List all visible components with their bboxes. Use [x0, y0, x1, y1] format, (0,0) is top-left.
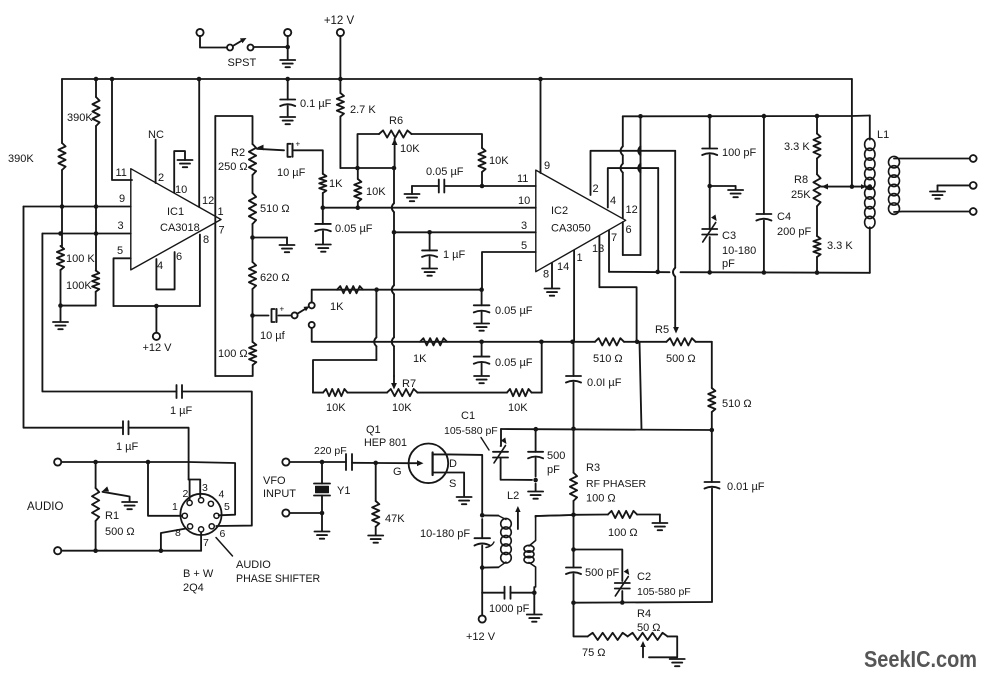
ground SPST — [280, 60, 295, 67]
wire L1 sec bottom — [894, 211, 970, 214]
svg-text:1: 1 — [218, 206, 224, 218]
wire 1uF-1 line — [42, 234, 176, 392]
svg-text:6: 6 — [626, 224, 632, 236]
wire VFO bottom lead — [290, 512, 323, 514]
wire R6 right leg — [412, 134, 483, 148]
svg-text:C2: C2 — [637, 571, 651, 583]
svg-text:D: D — [449, 458, 457, 470]
svg-text:CA3018: CA3018 — [160, 222, 200, 234]
svg-text:10-180: 10-180 — [722, 245, 756, 257]
label 500pF lower — [585, 567, 620, 579]
wire 10uF-switch lead — [279, 315, 292, 317]
label G — [393, 466, 402, 478]
svg-text:pF: pF — [722, 258, 735, 270]
label 10uF lower — [260, 330, 286, 342]
svg-text:500 Ω: 500 Ω — [666, 353, 696, 365]
wire pin4 drop — [657, 168, 659, 272]
potentiometer R8 25K — [813, 174, 820, 206]
label socket pins — [172, 482, 230, 549]
ground 0.05uF c — [474, 376, 489, 383]
svg-text:R7: R7 — [402, 378, 416, 390]
svg-text:7: 7 — [219, 225, 225, 237]
wire 1uF-2 right — [129, 428, 189, 480]
wiper R2 arrow — [257, 145, 284, 151]
label 10K br — [508, 402, 528, 414]
terminal SPST right — [284, 29, 291, 36]
svg-text:4: 4 — [610, 195, 616, 207]
wire col-right mid — [95, 207, 97, 271]
pin 1-7 column — [215, 116, 224, 376]
svg-text:75 Ω: 75 Ω — [582, 647, 606, 659]
label 75 — [582, 647, 606, 659]
resistor 510 chain — [249, 193, 256, 238]
resistor 3.3K upper — [813, 116, 820, 174]
resistor 510 bus — [595, 338, 624, 345]
label 0.05uF c — [495, 357, 533, 369]
wire +12V drop to wiper — [851, 79, 853, 187]
capacitor 1uF first — [177, 385, 183, 398]
label 100K lower — [66, 280, 92, 292]
wire tank to 1000pF — [481, 568, 483, 593]
svg-text:L1: L1 — [877, 129, 889, 141]
wire +12V feed — [339, 36, 341, 79]
svg-text:C3: C3 — [722, 230, 736, 242]
label C4 — [777, 211, 812, 238]
capacitor 1000pF — [482, 587, 534, 599]
svg-text:0.05 µF: 0.05 µF — [426, 166, 464, 178]
capacitor 500pF top — [528, 429, 543, 490]
callout C1 leader — [481, 438, 489, 451]
svg-text:R2: R2 — [231, 147, 245, 159]
node SPST-ground junction — [285, 45, 290, 50]
resistor 100K lower — [92, 271, 99, 306]
label 0.05uF b — [495, 305, 533, 317]
wire 220pF to gate — [352, 462, 409, 464]
wire 2.7K elbow — [340, 167, 394, 169]
label 100pF — [722, 147, 757, 159]
ground left column — [53, 322, 68, 329]
capacitor 100pF — [702, 116, 717, 186]
svg-text:500 pF: 500 pF — [585, 567, 620, 579]
svg-text:510 Ω: 510 Ω — [260, 203, 290, 215]
svg-text:12: 12 — [202, 195, 214, 207]
ground R4 — [670, 659, 685, 666]
capacitor 1uF mid — [422, 232, 437, 267]
svg-text:L2: L2 — [507, 490, 519, 502]
potentiometer R2 250 — [249, 144, 256, 193]
label 510 vert — [722, 398, 752, 410]
capacitor 0.01uF left — [566, 342, 581, 429]
svg-text:7: 7 — [203, 537, 209, 549]
inductor L1 secondary — [889, 156, 900, 214]
wire 100K bottoms — [61, 306, 96, 321]
op-amp IC2 CA3050 — [536, 170, 626, 272]
svg-text:3: 3 — [118, 220, 124, 232]
node pin3 junctions — [58, 231, 98, 236]
label 10K bl — [326, 402, 346, 414]
wire L2 coupling top — [498, 516, 506, 568]
label R3 — [586, 462, 647, 505]
pin 4 feedback loop — [608, 168, 658, 207]
pin 8 lead — [200, 234, 209, 306]
label pin 11 IC2 — [517, 173, 528, 185]
potentiometer R4 50 — [628, 633, 678, 658]
ground 0.05uF b — [474, 324, 489, 331]
terminal +12V bottom — [479, 615, 486, 622]
svg-text:3: 3 — [202, 482, 208, 494]
node 620 bottom — [250, 313, 255, 318]
resistor 47K — [372, 463, 379, 535]
ground 1000pF — [527, 615, 542, 622]
resistor 3.3K lower — [813, 206, 820, 272]
node pin4-pin7 junction — [655, 270, 660, 275]
label NC — [148, 129, 164, 141]
wiper R8 — [822, 184, 870, 190]
label R4 — [637, 608, 661, 634]
wire L2 sec to R3 — [536, 515, 574, 517]
svg-text:INPUT: INPUT — [263, 488, 296, 500]
socket pin circles — [182, 498, 219, 532]
svg-text:AUDIO: AUDIO — [27, 501, 63, 513]
wire pin7 line — [609, 272, 870, 273]
wire 1000pF right gnd — [533, 587, 535, 614]
svg-text:+12 V: +12 V — [324, 15, 355, 27]
svg-text:1 µF: 1 µF — [443, 249, 466, 261]
label AUDIO — [27, 501, 63, 513]
op-amp IC1 CA3018 — [131, 169, 221, 270]
terminal VFO bottom — [282, 509, 289, 516]
svg-text:105-580 pF: 105-580 pF — [637, 586, 691, 598]
resistor 390K right — [92, 79, 99, 207]
label 0.05uF a — [335, 223, 373, 235]
wiper R4 — [640, 641, 645, 657]
svg-text:R1: R1 — [105, 510, 119, 522]
wire audio bottom line — [61, 550, 201, 552]
node C1-500pF junction — [533, 478, 538, 483]
wire L1 sec top — [894, 158, 970, 160]
label 390K left — [8, 153, 34, 165]
svg-text:0.0I µF: 0.0I µF — [587, 377, 622, 389]
label pin 5 IC2 — [521, 240, 527, 252]
wire y116 line — [623, 115, 870, 118]
inductor L1 primary — [865, 116, 875, 273]
wire +12V bottom lead — [481, 593, 483, 616]
svg-text:620 Ω: 620 Ω — [260, 272, 290, 284]
wire 1uF-2 line — [24, 207, 124, 428]
wire SPST right lead — [254, 36, 288, 59]
node y603 junctions — [571, 600, 624, 605]
svg-text:1: 1 — [172, 501, 178, 513]
wire 10uF to 1K — [294, 150, 323, 174]
label pin 10 IC2 — [518, 195, 530, 207]
svg-text:100K: 100K — [66, 280, 92, 292]
svg-text:G: G — [393, 466, 402, 478]
svg-text:+12 V: +12 V — [466, 631, 496, 643]
label 220pF — [314, 445, 347, 457]
svg-text:R8: R8 — [794, 174, 808, 186]
capacitor 0.05uF a — [315, 208, 331, 244]
resistor 1K-2 — [420, 338, 447, 345]
label 1000pF — [489, 603, 530, 615]
svg-text:HEP 801: HEP 801 — [364, 437, 407, 449]
wire C2 jog — [574, 550, 623, 582]
svg-text:2: 2 — [158, 172, 164, 184]
node pin9 junctions — [60, 204, 99, 209]
wire col-left mid — [61, 207, 63, 247]
svg-text:10K: 10K — [366, 186, 386, 198]
svg-text:200 pF: 200 pF — [777, 226, 812, 238]
terminal +12V top — [337, 29, 344, 36]
svg-text:0.1 µF: 0.1 µF — [300, 98, 332, 110]
wire R6 left leg — [358, 134, 380, 168]
svg-text:10-180 pF: 10-180 pF — [420, 528, 470, 540]
label 1uF first — [170, 405, 193, 417]
label 0.01uF right — [727, 481, 765, 493]
svg-text:220 pF: 220 pF — [314, 445, 347, 457]
ground 500pF top — [528, 492, 543, 499]
capacitor 0.05uF pin11 — [412, 180, 536, 193]
label 0.01uF left — [587, 377, 622, 389]
svg-text:+: + — [280, 305, 285, 314]
node R8 wiper junctions — [850, 184, 872, 189]
node tank top — [480, 513, 485, 518]
pin 6 riser U — [623, 116, 641, 255]
resistor 100 gnd — [608, 511, 660, 522]
svg-text:1 µF: 1 µF — [116, 441, 139, 453]
label 510 chain — [260, 203, 290, 215]
pin 1 riser — [574, 251, 583, 342]
node 1K line junctions — [374, 287, 484, 292]
svg-text:1K: 1K — [413, 353, 427, 365]
capacitor 1uF second — [123, 421, 129, 434]
svg-text:C1: C1 — [461, 410, 475, 422]
svg-text:3: 3 — [521, 220, 527, 232]
svg-text:2Q4: 2Q4 — [183, 582, 204, 594]
node pin3 junctions — [392, 230, 432, 235]
node R3 bottom — [571, 513, 576, 518]
resistor 10K mid — [354, 168, 361, 208]
wire pin3 jog — [189, 480, 201, 497]
node y430 junctions — [534, 427, 576, 432]
capacitor 10uF upper — [288, 139, 301, 157]
resistor 2.7K — [337, 79, 344, 168]
ground Y1 — [315, 532, 330, 539]
label 10-180pF tank — [420, 528, 470, 540]
wire SPST left lead — [200, 36, 227, 47]
svg-text:11: 11 — [116, 167, 127, 179]
svg-text:390K: 390K — [8, 153, 34, 165]
svg-text:10K: 10K — [489, 155, 509, 167]
wire to 75ohm — [574, 603, 588, 637]
svg-text:5: 5 — [224, 501, 230, 513]
svg-text:2.7 K: 2.7 K — [350, 104, 376, 116]
ground Q1 source — [457, 497, 472, 504]
label 47K — [385, 513, 405, 525]
wire pin10 line — [323, 207, 536, 209]
svg-text:S: S — [449, 478, 456, 490]
label 10uF upper — [277, 167, 306, 179]
node 510vert bottom — [710, 428, 715, 433]
svg-text:8: 8 — [203, 234, 209, 246]
switch tone pole — [292, 306, 310, 318]
wire left rail corner — [61, 79, 63, 143]
svg-text:500 Ω: 500 Ω — [105, 526, 135, 538]
label C1 — [444, 410, 498, 437]
svg-text:14: 14 — [557, 261, 569, 273]
wire y430 line — [501, 429, 712, 430]
label L1 — [877, 129, 889, 141]
resistor 10K right — [478, 148, 485, 186]
svg-text:10K: 10K — [400, 143, 420, 155]
resistor 1K col — [319, 174, 326, 208]
wire R2 box top — [215, 116, 252, 144]
capacitor 500pF lower — [566, 550, 581, 603]
node 2.7K-R6 junctions — [355, 166, 396, 171]
svg-text:R4: R4 — [637, 608, 651, 620]
ground 0.1uF — [280, 117, 295, 124]
svg-text:VFO: VFO — [263, 475, 286, 487]
svg-text:6: 6 — [220, 528, 226, 540]
inductor L2 secondary — [524, 517, 536, 587]
potentiometer R5 500 — [666, 338, 695, 345]
capacitor C1 105-580pF — [493, 429, 532, 480]
svg-text:pF: pF — [547, 464, 560, 476]
svg-text:100 K: 100 K — [66, 253, 95, 265]
label Y1 — [337, 485, 350, 497]
label 1uF mid — [443, 249, 466, 261]
potentiometer R1 500 — [92, 462, 99, 551]
pin 10 lead and ground — [174, 151, 192, 196]
svg-text:RF PHASER: RF PHASER — [586, 478, 647, 490]
pin 12 lead — [199, 79, 214, 207]
wire 1K-2 line — [372, 341, 482, 343]
resistor R3 100 — [570, 429, 577, 515]
label Q1 — [364, 424, 407, 449]
label 390K right — [67, 112, 93, 124]
wiper R6 — [392, 139, 398, 169]
svg-text:1K: 1K — [330, 301, 344, 313]
resistor 10K br — [507, 389, 532, 396]
label 100K upper — [66, 253, 95, 265]
wire 510 gnd arm — [253, 238, 288, 245]
wiper R1 — [103, 486, 130, 501]
resistor 620 — [249, 238, 256, 316]
capacitor 220pF — [346, 454, 352, 470]
svg-text:R6: R6 — [389, 115, 403, 127]
switch tone throws — [309, 302, 315, 328]
svg-text:Q1: Q1 — [366, 424, 381, 436]
svg-text:5: 5 — [521, 240, 527, 252]
svg-text:10 µf: 10 µf — [260, 330, 286, 342]
label SeekIC.com watermark — [864, 646, 977, 672]
node 1000pF right — [532, 590, 537, 595]
pin 11 lead — [112, 79, 132, 180]
node audio bottom junctions — [93, 548, 163, 553]
label R7 — [392, 378, 416, 414]
pin 9 lead IC2 — [541, 79, 551, 173]
node 100pF gnd tap — [707, 184, 712, 189]
wire drain line — [449, 454, 482, 515]
capacitor 0.01uF right — [705, 430, 720, 602]
label SPST — [228, 57, 257, 69]
svg-text:105-580 pF: 105-580 pF — [444, 425, 498, 437]
label D — [449, 458, 457, 470]
svg-text:9: 9 — [119, 193, 125, 205]
svg-text:0.05 µF: 0.05 µF — [495, 305, 533, 317]
ground 510 chain — [280, 245, 295, 252]
wire pin2 stub — [189, 480, 191, 500]
svg-text:1: 1 — [577, 252, 583, 264]
svg-text:7: 7 — [611, 232, 617, 244]
label 10K right — [489, 155, 509, 167]
wire throw2 to bus — [312, 328, 372, 342]
ground R1 wiper — [122, 502, 137, 509]
pin2 column to R5 — [673, 151, 679, 334]
svg-text:12: 12 — [626, 204, 638, 216]
potentiometer R7 10K — [387, 389, 418, 396]
capacitor 10uF lower — [253, 305, 285, 323]
svg-text:4: 4 — [219, 489, 225, 501]
svg-text:10 µF: 10 µF — [277, 167, 306, 179]
wire throw1 to 1K line — [312, 290, 337, 303]
ground secondary — [930, 192, 945, 199]
svg-text:8: 8 — [175, 527, 181, 539]
pin 2 feedback loop — [591, 151, 676, 195]
svg-text:500: 500 — [547, 450, 565, 462]
wire L1 sec center — [938, 185, 970, 190]
svg-text:1K: 1K — [329, 178, 343, 190]
resistor 1K switch — [337, 286, 363, 293]
label R2 — [218, 147, 248, 173]
svg-text:10K: 10K — [508, 402, 528, 414]
svg-text:5: 5 — [117, 245, 123, 257]
pin 7 lead IC2 — [609, 231, 617, 272]
svg-text:11: 11 — [517, 173, 528, 185]
wire 100pF gnd arm — [710, 186, 736, 189]
label 3.3K lower — [827, 240, 853, 252]
terminal VFO top — [282, 458, 289, 465]
switch SPST — [227, 38, 254, 51]
svg-text:R3: R3 — [586, 462, 600, 474]
ground 0.05uF pin11 — [405, 186, 420, 201]
svg-text:100 Ω: 100 Ω — [586, 493, 616, 505]
label R1 — [105, 510, 135, 538]
label +12 V top — [324, 15, 355, 27]
pin 13 route — [592, 236, 637, 342]
svg-text:IC2: IC2 — [551, 205, 568, 217]
label 1K switch — [330, 301, 344, 313]
capacitor C4 200pF — [756, 116, 771, 272]
svg-text:+: + — [296, 139, 301, 148]
label 620 — [260, 272, 290, 284]
svg-text:10K: 10K — [392, 402, 412, 414]
socket B+W 2Q4 outline — [180, 494, 221, 535]
wire +12V rail — [62, 78, 852, 80]
label B+W 2Q4 — [183, 568, 214, 594]
label L2 — [507, 490, 519, 502]
resistor 100K upper — [57, 246, 64, 306]
label 2.7K — [350, 104, 376, 116]
svg-text:1 µF: 1 µF — [170, 405, 193, 417]
ground 0.05uF a — [316, 245, 331, 252]
wire source to ground — [446, 473, 464, 497]
node 510 gnd — [250, 235, 255, 240]
resistor 100 chain — [215, 316, 256, 377]
pin 8-14 ground — [543, 261, 569, 296]
svg-text:SeekIC.com: SeekIC.com — [864, 646, 977, 672]
resistor 10K bl — [323, 389, 348, 396]
svg-text:0.05 µF: 0.05 µF — [495, 357, 533, 369]
